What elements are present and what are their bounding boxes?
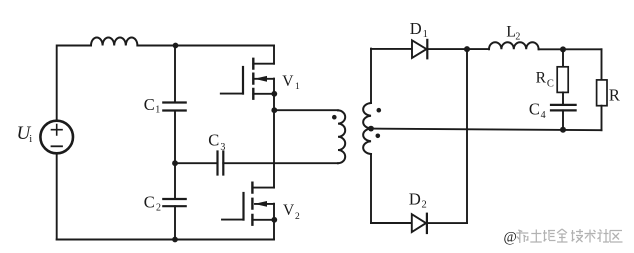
svg-text:C: C bbox=[547, 79, 554, 90]
wire V1 source bus down to V2 drain bbox=[273, 79, 275, 188]
wire C3 to primary bottom bbox=[223, 162, 338, 164]
node C4 bottom junction bbox=[560, 127, 566, 133]
svg-text:3: 3 bbox=[220, 142, 225, 153]
tu bbox=[530, 230, 542, 243]
wire D1 to L2 bbox=[427, 48, 490, 50]
label V1 bbox=[282, 73, 300, 92]
xi bbox=[516, 230, 528, 243]
wire Rc top bbox=[562, 49, 564, 66]
label Rc bbox=[536, 69, 554, 89]
svg-text:2: 2 bbox=[515, 32, 520, 43]
wire left vertical upper bbox=[56, 46, 58, 121]
wire Rc to C4 bbox=[562, 92, 564, 105]
transistor V1 bbox=[221, 59, 274, 99]
source Ui bbox=[40, 121, 73, 154]
label C4 bbox=[529, 100, 546, 121]
wire R top bbox=[601, 49, 603, 80]
wire C4 bottom bbox=[562, 110, 564, 129]
wire bottom rail bbox=[57, 239, 274, 241]
svg-text:C: C bbox=[144, 95, 155, 114]
label Ui bbox=[17, 123, 33, 145]
capacitor C1 bbox=[163, 103, 185, 111]
wire midpoint to C3 bbox=[175, 162, 218, 164]
wire C1 to midpoint bbox=[174, 111, 176, 200]
capacitor C2 bbox=[163, 199, 185, 206]
node L2 output bbox=[560, 46, 566, 52]
capacitor C4 bbox=[551, 105, 576, 111]
node D1 cathode junction bbox=[464, 46, 470, 52]
label C1 bbox=[144, 95, 161, 116]
qu bbox=[610, 231, 623, 243]
label V2 bbox=[283, 202, 300, 222]
node secondary polarity dot lower bbox=[376, 134, 381, 139]
shu bbox=[585, 230, 596, 243]
node center tap bbox=[368, 126, 374, 132]
svg-text:V: V bbox=[282, 73, 294, 90]
wire V1 drain drop bbox=[273, 46, 275, 64]
wire left vertical lower bbox=[56, 153, 58, 239]
wire secondary top to D1 bbox=[371, 48, 412, 50]
watermark bbox=[504, 229, 623, 246]
label L2 bbox=[506, 24, 520, 43]
wire C1 branch upper bbox=[174, 46, 176, 103]
transistor V2 bbox=[222, 183, 274, 225]
svg-text:D: D bbox=[409, 190, 421, 209]
jin bbox=[557, 229, 568, 242]
svg-text:C: C bbox=[144, 193, 155, 212]
svg-text:R: R bbox=[609, 86, 620, 105]
wire R bottom bbox=[601, 106, 603, 131]
node C1C2 midpoint bbox=[172, 160, 178, 166]
inductor L2 bbox=[489, 42, 539, 49]
wire secondary bottom bbox=[370, 154, 372, 223]
svg-text:2: 2 bbox=[295, 212, 300, 222]
wire top rail right bbox=[137, 45, 274, 47]
label D1 bbox=[410, 19, 428, 40]
wire secondary bottom to D2 bbox=[371, 222, 412, 224]
svg-text:V: V bbox=[283, 202, 295, 219]
she bbox=[598, 229, 610, 242]
capacitor C3 bbox=[218, 152, 224, 175]
svg-text:i: i bbox=[29, 134, 32, 145]
svg-text:R: R bbox=[536, 69, 547, 86]
node top C1 junction bbox=[173, 43, 179, 49]
node V2 source bbox=[271, 217, 277, 223]
wire V2 arrow corner to source bbox=[273, 204, 275, 240]
svg-text:4: 4 bbox=[541, 110, 546, 121]
svg-text:1: 1 bbox=[295, 82, 300, 92]
svg-text:C: C bbox=[529, 100, 540, 119]
node secondary polarity dot upper bbox=[377, 108, 382, 113]
node bridge midpoint bbox=[271, 107, 277, 113]
svg-text:D: D bbox=[410, 19, 422, 38]
wire L2 to right corner bbox=[539, 48, 602, 50]
svg-text:1: 1 bbox=[155, 104, 160, 115]
svg-text:2: 2 bbox=[156, 203, 161, 214]
label C2 bbox=[144, 193, 161, 214]
svg-text:C: C bbox=[208, 131, 219, 150]
svg-text:@: @ bbox=[504, 230, 517, 246]
wire D2 to bus bbox=[427, 222, 467, 224]
wire output bottom rail bbox=[371, 129, 602, 131]
wire top rail left bbox=[57, 45, 91, 47]
ji bbox=[571, 229, 583, 243]
label D2 bbox=[409, 190, 427, 211]
svg-text:2: 2 bbox=[422, 200, 427, 211]
wire midpoint to primary top bbox=[274, 109, 338, 111]
svg-text:1: 1 bbox=[423, 29, 428, 40]
node bottom C2 junction bbox=[172, 237, 178, 243]
wire secondary top bbox=[370, 49, 372, 103]
inductor L1 bbox=[91, 37, 137, 45]
diode D2 bbox=[412, 214, 426, 232]
wire C2 bottom bbox=[174, 206, 176, 239]
label C3 bbox=[208, 131, 225, 154]
transformer secondary winding bbox=[363, 103, 371, 154]
transformer primary winding bbox=[338, 110, 345, 163]
diode D1 bbox=[412, 40, 427, 58]
resistor Rc bbox=[557, 67, 568, 93]
resistor R bbox=[597, 80, 607, 106]
node V1 source bbox=[271, 91, 277, 97]
jue bbox=[543, 230, 556, 242]
wire D1 D2 cathode bus bbox=[466, 49, 468, 223]
node primary polarity dot bbox=[332, 115, 337, 120]
